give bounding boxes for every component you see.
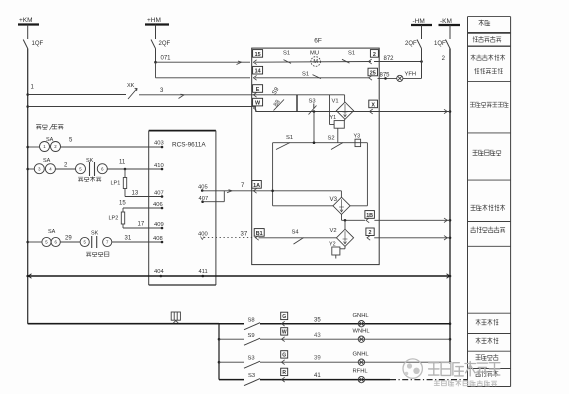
legend row closing blocking magnet <box>470 102 508 107</box>
legend row breaker <box>473 36 501 42</box>
svg-text:29: 29 <box>65 236 72 242</box>
watermark logo <box>403 359 422 378</box>
terminal marker row1 <box>281 312 288 319</box>
svg-text:14: 14 <box>255 69 261 75</box>
wire 15 to 406 <box>123 207 162 209</box>
legend row lines <box>468 32 511 34</box>
terminal 15 <box>253 50 263 58</box>
terminal 2 motor <box>370 50 378 58</box>
indicator row closed position <box>219 361 244 363</box>
svg-text:B1: B1 <box>256 231 263 237</box>
svg-text:RFHL: RFHL <box>353 369 369 375</box>
legend row closing coil circuit <box>471 205 505 211</box>
svg-text:17: 17 <box>138 222 145 228</box>
svg-text:S4: S4 <box>292 230 300 236</box>
wire 17 to 409 <box>123 227 162 229</box>
svg-text:V2: V2 <box>330 228 337 234</box>
wire close row corner down <box>366 143 368 206</box>
legend table frame <box>467 17 469 387</box>
fuse 2QF <box>155 25 157 40</box>
indicator row open position <box>219 379 244 381</box>
svg-text:RCS-9611A: RCS-9611A <box>172 142 206 149</box>
svg-text:407: 407 <box>154 191 164 197</box>
legend row open position <box>476 371 498 377</box>
label local open <box>86 252 109 257</box>
terminal B1 <box>254 229 264 237</box>
svg-text:MU: MU <box>310 51 319 57</box>
svg-text:41: 41 <box>314 373 321 379</box>
svg-text:SK: SK <box>91 231 99 237</box>
lamp YFH <box>397 75 403 81</box>
label local/remote <box>36 124 63 130</box>
svg-text:XK: XK <box>127 83 135 89</box>
svg-text:E: E <box>256 87 260 93</box>
svg-text:1QF: 1QF <box>434 41 446 47</box>
svg-text:LP1: LP1 <box>111 181 121 187</box>
svg-text:400: 400 <box>198 232 208 238</box>
terminal 408 <box>161 241 164 244</box>
svg-text:403: 403 <box>154 141 164 147</box>
wire 1A row <box>252 190 341 192</box>
svg-text:GNHL: GNHL <box>353 313 370 319</box>
svg-text:1A: 1A <box>253 183 260 189</box>
coil Y1 <box>329 95 331 125</box>
svg-text:S9: S9 <box>248 333 255 339</box>
wire 071 <box>155 49 157 63</box>
svg-text:13: 13 <box>132 191 139 197</box>
wire main row to -KM <box>256 111 451 113</box>
svg-text:37: 37 <box>241 232 248 238</box>
svg-text:SA: SA <box>48 229 56 235</box>
svg-text:GNHL: GNHL <box>353 352 370 358</box>
svg-text:G: G <box>282 353 286 359</box>
legend row motor charging <box>471 55 505 61</box>
svg-text:406: 406 <box>153 202 163 208</box>
svg-text:1QF: 1QF <box>32 41 44 47</box>
wire 13 to 407 <box>125 196 162 198</box>
svg-text:M: M <box>313 59 318 65</box>
dotted wire 37 <box>204 237 258 239</box>
svg-text:R: R <box>282 370 286 376</box>
fuse 1QF <box>27 25 29 40</box>
wire to XK <box>28 94 126 96</box>
fuse 2QF right <box>421 25 423 39</box>
wire 2 (right -KM bus) <box>449 49 451 363</box>
wire S3 down to close row <box>313 112 315 143</box>
svg-text:11: 11 <box>119 160 126 166</box>
svg-text:872: 872 <box>384 56 395 62</box>
svg-text:S8: S8 <box>248 318 255 324</box>
wire 1B to -KM <box>374 219 450 221</box>
svg-text:410: 410 <box>154 163 164 169</box>
terminal marker row3 <box>281 351 288 358</box>
terminal X <box>369 100 378 108</box>
terminal 1B <box>365 211 375 219</box>
plug arrow on wire 3 <box>179 94 185 98</box>
wire 1 (left +KM bus) <box>27 49 29 324</box>
watermark slogan <box>434 381 496 386</box>
fuse 1QF right <box>449 25 451 39</box>
svg-text:SA: SA <box>43 158 51 164</box>
svg-text:YFH: YFH <box>405 72 417 78</box>
svg-text:S1: S1 <box>302 72 309 78</box>
svg-text:071: 071 <box>161 56 172 62</box>
wire charged-signal row <box>255 77 369 79</box>
label local close <box>78 177 101 182</box>
wire 404 <box>28 275 451 277</box>
svg-text:43: 43 <box>314 333 321 339</box>
svg-text:W: W <box>282 330 287 336</box>
svg-text:409: 409 <box>154 222 164 228</box>
wire 7 to breaker <box>202 190 252 192</box>
wire V3 to terminal 1B <box>341 214 343 220</box>
svg-text:S3: S3 <box>309 99 316 105</box>
terminal 2 trip <box>366 228 374 236</box>
circuit breaker unit 6F <box>252 48 380 265</box>
svg-text:404: 404 <box>154 269 164 275</box>
svg-text:411: 411 <box>199 269 208 275</box>
svg-text:V1: V1 <box>332 99 339 105</box>
indicator row test position <box>219 323 244 325</box>
svg-text:2QF: 2QF <box>159 41 171 47</box>
indicator row work position <box>219 338 244 340</box>
svg-text:1B: 1B <box>366 213 373 219</box>
terminal marker row2 <box>281 328 288 335</box>
svg-text:2: 2 <box>373 52 376 58</box>
terminal 14 <box>253 66 263 74</box>
svg-text:15: 15 <box>119 201 126 207</box>
legend row closing release <box>473 150 501 156</box>
svg-text:WNHL: WNHL <box>353 329 371 335</box>
legend row work position <box>476 338 498 344</box>
legend row closed position <box>476 354 498 360</box>
svg-text:35: 35 <box>314 317 321 323</box>
svg-text:S2: S2 <box>328 136 335 142</box>
junction dots on +KM bus <box>26 93 29 96</box>
protection relay RCS-9611A <box>149 130 216 132</box>
junctions on -KM bus <box>449 110 452 113</box>
svg-text:S1: S1 <box>286 135 293 141</box>
svg-text:S1: S1 <box>283 51 290 57</box>
terminal 410 <box>124 168 127 171</box>
wire close row <box>273 142 368 144</box>
svg-text:25: 25 <box>370 70 376 76</box>
wire lamp bus vertical <box>218 324 220 380</box>
wire to terminal 14 <box>155 62 157 78</box>
terminal strip marker <box>171 312 180 320</box>
wire trip row <box>259 237 337 239</box>
legend row test position <box>476 319 498 325</box>
wire E row internal <box>252 94 345 96</box>
wire 071 to terminal 15 <box>156 61 251 63</box>
svg-text:6F: 6F <box>314 38 322 45</box>
svg-text:+KM: +KM <box>19 17 33 24</box>
wire lamp to -HM <box>403 77 422 79</box>
terminal W <box>253 98 263 106</box>
svg-text:Y1: Y1 <box>330 115 337 121</box>
boundary dash-dot wire <box>390 379 468 381</box>
svg-text:S3: S3 <box>248 356 255 362</box>
svg-text:LP2: LP2 <box>109 216 119 222</box>
wire 875 <box>378 77 397 79</box>
legend name header <box>479 20 490 26</box>
svg-text:39: 39 <box>314 356 321 362</box>
terminal 1A <box>252 181 261 189</box>
wire trip to -KM <box>374 237 450 239</box>
terminal marker row4 <box>281 368 288 375</box>
svg-text:2QF: 2QF <box>405 41 417 47</box>
svg-text:Y3: Y3 <box>354 134 361 140</box>
terminal E <box>253 85 263 93</box>
terminal 25 <box>368 68 378 76</box>
strap LP1 <box>124 169 126 178</box>
wire +KM to terminal W <box>28 106 252 108</box>
svg-text:G: G <box>282 314 286 320</box>
legend row opening coil circuit <box>471 227 505 233</box>
wire 3 <box>139 94 252 96</box>
wire motor row <box>255 61 371 64</box>
wire left branch down <box>272 143 274 206</box>
wire 872 <box>374 61 422 63</box>
svg-text:S3: S3 <box>248 373 255 379</box>
svg-text:31: 31 <box>125 236 132 242</box>
strap LP2 <box>121 212 124 224</box>
terminal 403 <box>161 146 164 149</box>
svg-text:X: X <box>371 102 375 108</box>
svg-text:+HM: +HM <box>147 17 161 24</box>
wire lamp feeder <box>28 323 219 325</box>
svg-text:408: 408 <box>153 236 163 242</box>
svg-text:15: 15 <box>255 52 261 58</box>
svg-text:S1: S1 <box>348 51 355 57</box>
watermark text <box>429 362 500 376</box>
